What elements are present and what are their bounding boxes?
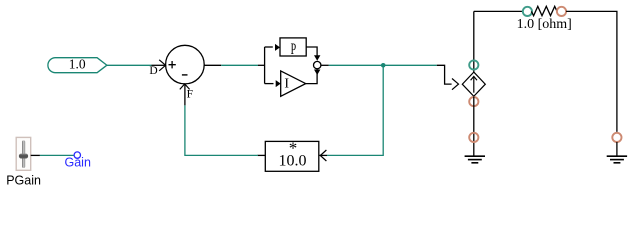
svg-text:F: F xyxy=(187,88,193,100)
PI input branch vertical wire xyxy=(265,44,281,87)
svg-text:1.0 [ohm]: 1.0 [ohm] xyxy=(517,17,572,32)
wire: PI output to junction dot xyxy=(321,64,437,66)
wire: feedback from junction to multiplier xyxy=(320,65,384,155)
svg-text:D: D xyxy=(149,65,157,77)
plus sign xyxy=(169,61,176,68)
input port arrow (left) xyxy=(159,60,165,71)
zigzag body xyxy=(531,6,557,15)
multiplier block gain 10.0 xyxy=(265,139,326,172)
wire: current source top to resistor xyxy=(474,10,523,12)
wire: current source bottom to left ground xyxy=(473,96,475,156)
source block const 1.0 xyxy=(48,56,107,72)
label Gain xyxy=(65,155,91,169)
wire: ring to right ground xyxy=(616,142,618,156)
port label F xyxy=(187,88,193,100)
wire: resistor to right ground branch xyxy=(566,11,617,131)
label PGain xyxy=(6,174,41,188)
svg-text:10.0: 10.0 xyxy=(279,152,307,169)
wire: multiplier output to sum F input xyxy=(185,85,265,156)
block I integrator xyxy=(281,71,306,96)
block P proportional gain xyxy=(280,38,306,58)
terminal ring resistor left (teal) xyxy=(523,7,532,16)
connector Gain (input port circle) xyxy=(74,152,80,158)
value label 1.0 [ohm] xyxy=(517,17,572,32)
input port arrow (right) xyxy=(320,150,326,161)
wire: slider to Gain connector xyxy=(31,154,74,156)
ground right xyxy=(607,156,627,163)
junction dot xyxy=(381,63,386,68)
svg-text:Gain: Gain xyxy=(65,155,91,169)
controlled current source xyxy=(462,72,485,96)
ground left xyxy=(465,156,485,163)
port label D xyxy=(149,65,157,77)
svg-text:I: I xyxy=(284,77,289,92)
terminal ring left ground (salmon) xyxy=(469,133,478,142)
resistor R 1.0 ohm xyxy=(523,6,566,16)
wire: sum output to PI input branch xyxy=(204,64,264,66)
terminal ring current source bottom (salmon) xyxy=(469,97,478,106)
svg-text:PGain: PGain xyxy=(6,174,41,188)
wire: junction to current source signal input xyxy=(437,65,459,89)
terminal ring current source top (teal) xyxy=(469,60,478,69)
feedback port arrow (bottom) xyxy=(180,84,190,90)
svg-text:P: P xyxy=(291,39,297,57)
PI output sum node xyxy=(306,47,321,84)
wire: vertical through current source top terminal xyxy=(473,11,475,72)
slider widget PGain xyxy=(16,137,31,170)
summing junction feedback block xyxy=(159,45,204,89)
terminal ring resistor right (salmon) xyxy=(557,7,566,16)
wire: constant output to sum junction (net D) xyxy=(107,64,165,66)
terminal ring right ground (salmon) xyxy=(612,133,621,142)
svg-text:1.0: 1.0 xyxy=(69,56,86,71)
minus sign xyxy=(182,74,188,76)
